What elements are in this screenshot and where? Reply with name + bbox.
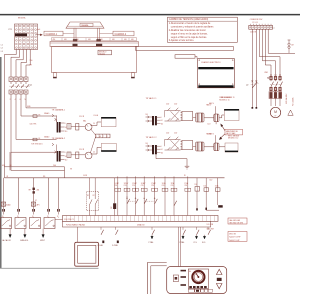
- svg-text:RH: RH: [29, 189, 31, 191]
- svg-text:24: 24: [161, 120, 163, 122]
- svg-text:450: 450: [124, 39, 127, 41]
- svg-text:1C6 C3B: 1C6 C3B: [207, 224, 213, 226]
- relay branch K5: [215, 178, 220, 205]
- svg-text:CAMARA 1: CAMARA 1: [46, 33, 58, 36]
- svg-text:4: 4: [15, 99, 16, 101]
- wire Y2 to spare box 1: [219, 115, 224, 118]
- wire Y4 to spare box 2: [219, 146, 225, 148]
- busbar black bottom: [198, 85, 233, 87]
- cabinet box CUADRO: [198, 59, 235, 88]
- contact on branch C7: [174, 201, 177, 206]
- contact on branch C3: [135, 198, 138, 204]
- svg-text:conexiones y enlazar el puente: conexiones y enlazar el puente auxiliare…: [171, 26, 214, 29]
- contact network 2: [165, 137, 181, 150]
- solenoid Y2: [214, 114, 219, 122]
- motor M1: [270, 107, 280, 117]
- plug AP1: [31, 202, 39, 206]
- panel button bar 3: [181, 284, 187, 286]
- svg-text:AGA4: AGA4: [6, 203, 10, 206]
- svg-text:150: 150: [30, 60, 33, 62]
- note box MOD GN: [228, 232, 247, 242]
- svg-text:C2U: C2U: [166, 133, 170, 135]
- chevrons TR2 feeder: [52, 143, 56, 153]
- labels motor ratings: [285, 93, 295, 106]
- svg-text:P PA6: P PA6: [149, 241, 154, 244]
- machine table top: [50, 42, 138, 47]
- svg-text:3~: 3~: [274, 115, 277, 117]
- wire motor phase 1: [265, 29, 271, 74]
- wire strip to display D1: [77, 227, 79, 242]
- link dashes C4-C5: [146, 200, 154, 202]
- svg-text:98: 98: [70, 169, 72, 171]
- svg-text:A: A: [100, 135, 101, 138]
- aux contact below strip: [116, 227, 119, 235]
- wire motor phase 3: [260, 29, 281, 74]
- dimension labels row: [52, 38, 137, 41]
- terminal pads bottom columns: [2, 209, 60, 218]
- wire phase to TR1 b: [21, 98, 57, 116]
- bus 24V a: [4, 166, 64, 168]
- signal arrow D-TIME a: [180, 235, 185, 244]
- link dashes C2-C3: [129, 200, 135, 202]
- svg-text:450: 450: [88, 39, 91, 41]
- wire PE: [4, 49, 16, 178]
- pedal switch S2: [15, 218, 26, 229]
- pad control feed b: [256, 107, 258, 109]
- svg-text:3-Ajustar el rele termico.: 3-Ajustar el rele termico.: [169, 39, 195, 42]
- branch wire C4: [141, 176, 147, 215]
- fuse F5: [67, 124, 71, 130]
- svg-text:C2U: C2U: [209, 179, 212, 181]
- svg-text:1C0: 1C0: [204, 186, 207, 188]
- svg-text:KA1: KA1: [83, 119, 86, 122]
- pin ticks XC1: [250, 22, 271, 25]
- svg-text:F3: F3: [39, 114, 41, 116]
- svg-text:C2U: C2U: [207, 123, 210, 125]
- link box TR2: [76, 152, 79, 159]
- contact on branch C4: [144, 198, 147, 204]
- selector box CAMARA TIEMPO: [91, 129, 111, 153]
- branch wire C8: [184, 176, 190, 215]
- svg-text:450: 450: [53, 39, 56, 41]
- panel display window: [188, 269, 208, 289]
- TR1 secondary taps: [61, 123, 68, 133]
- branch wire B3: [33, 178, 35, 209]
- svg-text:C2U: C2U: [166, 104, 170, 106]
- svg-text:24: 24: [93, 123, 95, 125]
- control panel A1: [167, 267, 227, 294]
- signal arrow D-TIME b: [194, 235, 198, 244]
- svg-text:T: T: [103, 136, 104, 138]
- svg-text:FUNCIONANDO PAUSA: FUNCIONANDO PAUSA: [66, 224, 86, 227]
- svg-text:C2U R: C2U R: [79, 149, 85, 151]
- ground MB2: [185, 166, 190, 169]
- wire TR2 to relay: [71, 154, 85, 156]
- wire control feed b: [255, 29, 257, 107]
- svg-text:TR VACIO 1: TR VACIO 1: [146, 97, 158, 100]
- svg-text:98: 98: [10, 165, 12, 167]
- signal arrow VACIO: [9, 229, 12, 238]
- svg-text:Q1: Q1: [30, 85, 34, 87]
- page left border: [0, 57, 2, 268]
- contact K2: [93, 178, 98, 216]
- svg-text:K1: K1: [87, 195, 89, 197]
- svg-text:110: 110: [65, 131, 68, 133]
- wire marker arrow right of XT1: [36, 34, 43, 36]
- svg-text:W: W: [7, 176, 9, 178]
- label CAMARA 2: [100, 31, 135, 36]
- solenoid Y1: [193, 113, 204, 122]
- wire Y2 stub down: [215, 122, 217, 125]
- svg-text:30MA D: 30MA D: [44, 112, 50, 115]
- relay contacts K1 K2 group: [87, 192, 99, 211]
- svg-text:C2U: C2U: [132, 185, 135, 187]
- svg-text:KM1: KM1: [265, 72, 269, 74]
- aux contact below strip: [197, 227, 200, 235]
- solenoid Y3: [193, 142, 204, 151]
- note box CAMBIO DE TENSION: [168, 17, 238, 42]
- signal arrow SLD: [202, 235, 206, 244]
- wire HAS V drop 2: [215, 135, 217, 143]
- svg-text:DIBA LIGI: DIBA LIGI: [137, 224, 145, 227]
- thermal relay F2: [269, 91, 282, 106]
- svg-text:24: 24: [65, 156, 67, 158]
- svg-text:AL: AL: [189, 270, 191, 273]
- timer contact dark: [218, 205, 223, 207]
- svg-text:2-Realizar las conexiones d: 2-Realizar las conexiones del motor: [169, 29, 206, 32]
- svg-text:1C4A7: 1C4A7: [141, 182, 146, 185]
- svg-text:HAS V: HAS V: [209, 102, 215, 105]
- branch wire B4: [48, 178, 50, 209]
- svg-text:240: 240: [53, 165, 56, 167]
- fuse holder DR: [288, 40, 294, 53]
- svg-text:VENT: VENT: [40, 240, 46, 242]
- svg-text:M: M: [274, 110, 277, 114]
- svg-text:1C0A: 1C0A: [215, 185, 219, 188]
- svg-text:CONEXION 220V: CONEXION 220V: [250, 19, 264, 21]
- wire down to bottom buses: [10, 152, 12, 170]
- svg-text:C2U: C2U: [174, 104, 178, 106]
- svg-text:1L1A7: 1L1A7: [114, 182, 119, 185]
- spare box 1: [224, 109, 239, 121]
- relay branch K4: [204, 178, 209, 210]
- wires into MB1: [146, 114, 153, 122]
- page top border: [0, 14, 300, 16]
- note box DIP: [228, 218, 247, 224]
- note RES SEGUN 12: [228, 136, 240, 140]
- svg-text:C2U: C2U: [162, 185, 165, 187]
- svg-text:110: 110: [161, 152, 163, 154]
- svg-text:MOD GN: MOD GN: [229, 233, 236, 235]
- svg-text:1T0A: 1T0A: [184, 182, 188, 185]
- svg-text:F2 6.3-10A: F2 6.3-10A: [292, 97, 295, 106]
- panel up button: [216, 269, 222, 274]
- note RES SEGUN 11: [219, 97, 231, 101]
- svg-text:110: 110: [161, 123, 163, 125]
- display unit D1: [75, 242, 99, 266]
- svg-text:L1: L1: [273, 28, 275, 30]
- callout arrows to note: [219, 124, 225, 140]
- wire control feed a: [251, 29, 253, 107]
- wire L3: [21, 49, 27, 77]
- svg-text:1-Desconectar el neutro de la: 1-Desconectar el neutro de la regleta de: [169, 22, 211, 25]
- transformer TR1: [57, 116, 61, 133]
- svg-text:CAMARA 2: CAMARA 2: [115, 33, 127, 36]
- svg-text:1M: 1M: [291, 45, 294, 47]
- svg-text:C2U: C2U: [174, 133, 178, 135]
- svg-text:L2: L2: [1, 48, 3, 50]
- pedal switch S4: [44, 218, 55, 229]
- panel button bar 1: [181, 270, 187, 272]
- svg-text:GED WID GR GHS: GED WID GR GHS: [229, 222, 243, 224]
- machine post right: [96, 28, 100, 41]
- branch wire C2: [124, 176, 130, 215]
- svg-text:1 2 3 4 5: 1 2 3 4 5: [252, 22, 258, 24]
- branch wire C1: [114, 176, 120, 215]
- svg-text:TOR TRK 300 D: TOR TRK 300 D: [31, 143, 43, 145]
- bus join right: [64, 167, 66, 178]
- terminal strip row B: [63, 221, 211, 227]
- aux contact below strip: [152, 227, 155, 235]
- wire x10 to bus b: [9, 152, 11, 170]
- pad control feed a: [252, 107, 254, 109]
- wire phase to TR1 a: [26, 98, 57, 108]
- main switch Q1: [9, 77, 30, 98]
- fuse F4: [33, 138, 40, 141]
- wire panel feed pair: [179, 227, 181, 267]
- svg-text:N=400 R 13 HP: N=400 R 13 HP: [229, 237, 240, 239]
- varistor RV1: [113, 178, 116, 216]
- svg-text:L1: L1: [1, 44, 3, 46]
- svg-text:410: 410: [2, 165, 5, 167]
- machine leg right: [131, 73, 135, 79]
- wire N: [26, 49, 30, 77]
- svg-text:TM-450: TM-450: [99, 53, 105, 55]
- bench line bottom-left: [0, 267, 99, 269]
- signal arrow LO-HB: [149, 235, 154, 244]
- wire motor phase 2: [262, 29, 275, 74]
- contact on branch C2: [127, 196, 130, 204]
- delta symbol: [288, 110, 293, 115]
- svg-text:C0D TRK: C0D TRK: [30, 124, 38, 126]
- svg-text:C2U: C2U: [114, 185, 117, 187]
- label CAMARA 1: [44, 31, 74, 36]
- branch wire C7: [171, 176, 177, 215]
- panel keys row: [189, 286, 206, 288]
- svg-text:450: 450: [131, 39, 134, 41]
- fuse F6: [67, 152, 71, 158]
- wire L1: [11, 49, 20, 77]
- plug AGA4: [1, 202, 10, 206]
- svg-text:CAMARA: CAMARA: [81, 24, 89, 27]
- svg-text:segun el nexo en la caja de bo: segun el nexo en la caja de bornas,: [171, 32, 208, 35]
- wire L2: [16, 49, 23, 77]
- svg-text:450: 450: [112, 39, 115, 41]
- wire MB2 bottom to ground: [156, 154, 187, 166]
- relay KA2: [79, 149, 95, 159]
- svg-text:10 98: 10 98: [83, 175, 87, 177]
- branch wire C6: [162, 176, 168, 215]
- contact on branch C5: [154, 198, 157, 204]
- panel set button: [217, 278, 222, 281]
- branch wire C3: [132, 176, 138, 215]
- bus 24V b: [11, 169, 65, 171]
- svg-text:MODELO 12: MODELO 12: [228, 138, 238, 140]
- svg-text:P: P: [107, 136, 108, 138]
- branch wire C5: [151, 176, 157, 215]
- terminal strip XC1: [249, 25, 273, 29]
- machine post left: [73, 28, 77, 41]
- contactor KM1: [265, 72, 283, 91]
- svg-text:VACIO MAX.: VACIO MAX.: [226, 132, 236, 135]
- svg-text:C2U: C2U: [124, 185, 127, 187]
- svg-text:30MA D: 30MA D: [44, 136, 50, 139]
- svg-text:AP1: AP1: [37, 203, 40, 206]
- panel button bar 2: [181, 276, 187, 278]
- svg-text:W1: W1: [43, 176, 46, 178]
- svg-text:1M: 1M: [146, 114, 149, 116]
- svg-text:6: 6: [20, 99, 21, 101]
- svg-text:D-TIME: D-TIME: [112, 245, 119, 247]
- T4 secondary taps: [157, 146, 163, 154]
- panel holder bracket: [148, 263, 167, 295]
- bus main 110V: [5, 177, 225, 179]
- svg-text:1T3A: 1T3A: [171, 182, 175, 185]
- cabinet corner screws: [199, 60, 233, 85]
- svg-text:SLD: SLD: [202, 242, 206, 244]
- machine nameplate label: [98, 50, 112, 55]
- svg-text:450: 450: [76, 39, 79, 41]
- labels over contact net 2: [166, 133, 178, 135]
- svg-text:LTG: LTG: [194, 242, 198, 244]
- svg-text:5x4: 5x4: [37, 29, 40, 31]
- T3 secondary taps: [157, 117, 163, 125]
- transformer T4: [152, 145, 157, 154]
- wires into MB2: [146, 143, 153, 151]
- svg-text:24: 24: [93, 152, 95, 154]
- terminal strip row A: [63, 216, 219, 222]
- relay box A4: [181, 141, 193, 150]
- svg-text:GAL GED GHS: GAL GED GHS: [229, 219, 240, 222]
- TR2 secondary taps: [61, 152, 68, 162]
- svg-text:F4: F4: [39, 138, 41, 140]
- svg-text:2: 2: [10, 99, 11, 101]
- svg-text:N=400 R L HP: N=400 R L HP: [229, 240, 239, 242]
- svg-text:L3: L3: [1, 51, 3, 53]
- bus labels: [2, 165, 72, 171]
- svg-text:A11: A11: [37, 188, 40, 191]
- wire bottom link LR: [206, 209, 219, 211]
- svg-text:C10 C200 C3: C10 C200 C3: [64, 219, 74, 221]
- relay KA1: [79, 116, 95, 130]
- svg-text:LA CALOR: LA CALOR: [2, 239, 11, 242]
- transformer T3: [152, 116, 157, 125]
- svg-text:24: 24: [161, 149, 163, 151]
- branch wire B2: [18, 178, 20, 209]
- svg-text:C2U R: C2U R: [79, 116, 85, 118]
- note THE DEVICE 11: [221, 97, 234, 99]
- fuse F3: [33, 114, 40, 117]
- svg-text:C2U: C2U: [171, 185, 174, 187]
- labels over contact net 1: [166, 104, 178, 106]
- svg-text:TR VACIO 2: TR VACIO 2: [146, 136, 158, 139]
- svg-text:segun el filtro en la caj: segun el filtro en la caja de bornas.: [171, 36, 207, 39]
- branch wire B1: [3, 178, 5, 209]
- wire neutral link: [268, 29, 295, 53]
- panel button mode: [173, 275, 178, 282]
- switch Q2: [246, 80, 259, 87]
- transformer TR2: [57, 145, 61, 162]
- svg-text:MODELO 11: MODELO 11: [219, 99, 229, 101]
- svg-text:F1F: F1F: [111, 206, 113, 209]
- wire Y3 to Y4: [204, 146, 214, 148]
- svg-text:PE: PE: [30, 65, 33, 67]
- pole number labels: [10, 99, 27, 101]
- machine leg left: [53, 73, 57, 79]
- svg-text:0: 0: [161, 117, 162, 119]
- note MANTENER VACIO: [225, 129, 243, 135]
- wire duct box: [136, 47, 234, 51]
- svg-text:450: 450: [100, 39, 103, 41]
- svg-text:XT1: XT1: [8, 29, 13, 31]
- aux arrows small left: [98, 241, 119, 248]
- svg-text:GIRA SOL: GIRA SOL: [20, 239, 28, 242]
- svg-text:P PA6: P PA6: [180, 241, 185, 244]
- svg-text:KM1 9A 400V: KM1 9A 400V: [285, 93, 288, 104]
- svg-text:TR CAMARA 1: TR CAMARA 1: [52, 109, 66, 112]
- wire HAS V drop 1: [215, 106, 217, 114]
- svg-text:1C1A7: 1C1A7: [124, 182, 129, 185]
- machine body: [52, 47, 137, 73]
- svg-text:0: 0: [65, 152, 66, 154]
- svg-text:N: N: [25, 99, 27, 101]
- terminal block XT1: [15, 24, 38, 50]
- pedal switch S3: [30, 218, 41, 229]
- wire TR1 to relay: [71, 125, 85, 127]
- svg-text:Q2: Q2: [246, 85, 248, 87]
- relay branch K3: [195, 178, 200, 211]
- svg-text:2 4 6 8 N: 2 4 6 8 N: [250, 32, 256, 34]
- labels L1 L2 L3: [1, 44, 3, 52]
- svg-text:K2: K2: [93, 195, 95, 197]
- spare box 2: [225, 143, 238, 152]
- wire Y1 to Y2: [204, 117, 214, 119]
- svg-text:1C4A7: 1C4A7: [132, 182, 137, 185]
- contact K1: [87, 178, 92, 216]
- solenoid Y4: [214, 143, 219, 151]
- branch wire B5: [58, 178, 60, 209]
- contact network 1: [165, 108, 181, 121]
- svg-text:W: W: [184, 175, 186, 177]
- wire S4 to strip: [55, 219, 63, 221]
- panel bottom cells: [188, 289, 212, 292]
- bus main labels: [7, 175, 187, 178]
- pedal switch S1: [1, 218, 12, 229]
- link box TR1: [76, 124, 79, 131]
- svg-text:REGLETA: REGLETA: [18, 17, 26, 20]
- svg-text:1C0: 1C0: [195, 184, 198, 186]
- machine lid pictorial: [66, 22, 104, 28]
- svg-text:24: 24: [65, 127, 67, 129]
- svg-text:110: 110: [65, 160, 68, 162]
- vacuum gauge: [192, 271, 204, 283]
- svg-text:RES. SEGUN 11: RES. SEGUN 11: [221, 97, 234, 99]
- signal arrow VENT: [42, 229, 45, 238]
- wire KA2 to heater bar 2: [91, 147, 102, 154]
- wire phase to TR2 a: [16, 98, 57, 139]
- svg-text:L5U A: L5U A: [94, 114, 99, 117]
- svg-text:C2U: C2U: [184, 185, 187, 187]
